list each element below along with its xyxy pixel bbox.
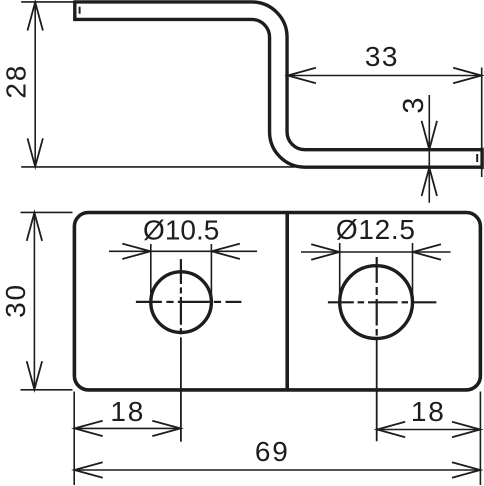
dim 33: right arrow bbox=[453, 68, 481, 83]
dim 30: top arrow bbox=[27, 213, 42, 241]
svg-text:Ø12.5: Ø12.5 bbox=[336, 214, 416, 245]
dim Ø12.5: left arrow bbox=[311, 244, 339, 259]
side view: right end cap bbox=[480, 148, 483, 169]
svg-text:69: 69 bbox=[255, 436, 290, 467]
hole 2 vertical centerline bbox=[376, 257, 378, 336]
svg-text:33: 33 bbox=[365, 41, 399, 72]
dim 33: left arrow bbox=[288, 68, 316, 83]
dim Ø12.5: right arrow bbox=[413, 244, 441, 259]
dim 69: left arrow bbox=[75, 462, 103, 477]
dim Ø10.5: left arrow bbox=[122, 244, 150, 259]
dim 28: top arrow bbox=[28, 2, 43, 30]
dim 30: bottom arrow bbox=[27, 361, 42, 389]
dim Ø10.5: right arrow bbox=[212, 244, 240, 259]
svg-text:18: 18 bbox=[110, 396, 145, 427]
hole 2 horizontal centerline bbox=[328, 301, 437, 303]
hole 1 circle bbox=[151, 272, 212, 333]
dim 28: bottom arrow bbox=[28, 138, 43, 166]
dim 3: lower arrow bbox=[422, 168, 437, 196]
dim Ø12.5: extension lines bbox=[339, 243, 341, 302]
dim 69: right arrow bbox=[452, 462, 480, 477]
plan view: plate outline bbox=[74, 213, 480, 390]
side view: right end tick bbox=[476, 154, 478, 162]
dim 18 left: dimension line bbox=[74, 427, 181, 429]
hole 2 center extension line (to 18 dim) bbox=[376, 339, 378, 442]
dim 33: right extension line bbox=[481, 68, 483, 178]
hole 1 center extension line (to 18 dim) bbox=[180, 337, 182, 441]
dim Ø10.5: dimension line bbox=[109, 250, 257, 252]
dim 18 left: left extension line bbox=[73, 392, 75, 486]
dim 28: dimension line bbox=[34, 2, 36, 167]
side view: left end tick bbox=[79, 7, 81, 14]
dim 69: dimension line bbox=[74, 469, 480, 471]
dim 18 right: left arrow bbox=[377, 422, 405, 437]
svg-text:30: 30 bbox=[0, 283, 31, 318]
dim 30: bottom extension line bbox=[21, 389, 73, 391]
svg-text:28: 28 bbox=[1, 64, 32, 99]
dim 3: upper arrow bbox=[422, 121, 437, 149]
dim 3: dimension line bbox=[428, 95, 430, 203]
hole 1 horizontal centerline bbox=[136, 301, 242, 303]
dim Ø10.5: extension lines bbox=[150, 244, 152, 302]
dim 33: dimension line bbox=[287, 75, 481, 77]
dim 18 right: right arrow bbox=[452, 422, 480, 437]
side view: left end cap bbox=[73, 0, 76, 21]
dim 18 left: left arrow bbox=[75, 421, 103, 436]
dim 28: bottom extension line bbox=[21, 166, 295, 168]
svg-text:3: 3 bbox=[398, 97, 430, 113]
dim 18 left: right arrow bbox=[152, 421, 180, 436]
plan view: divider line bbox=[285, 213, 289, 390]
dim 30: top extension line bbox=[21, 211, 73, 213]
side view: Z-profile sheet band (outer outline) bbox=[75, 11, 482, 159]
dim 30: dimension line bbox=[33, 212, 35, 389]
dim 18 right: dimension line bbox=[377, 429, 481, 431]
dim Ø12.5: dimension line bbox=[301, 251, 451, 253]
svg-text:Ø10.5: Ø10.5 bbox=[143, 214, 219, 245]
dim 69: right extension line bbox=[479, 392, 481, 486]
hole 1 vertical centerline bbox=[180, 259, 182, 334]
svg-text:18: 18 bbox=[411, 396, 446, 427]
side view: Z-profile sheet band (inner white) bbox=[75, 11, 482, 159]
hole 2 circle bbox=[340, 266, 413, 339]
dim 28: top extension line bbox=[21, 1, 74, 3]
